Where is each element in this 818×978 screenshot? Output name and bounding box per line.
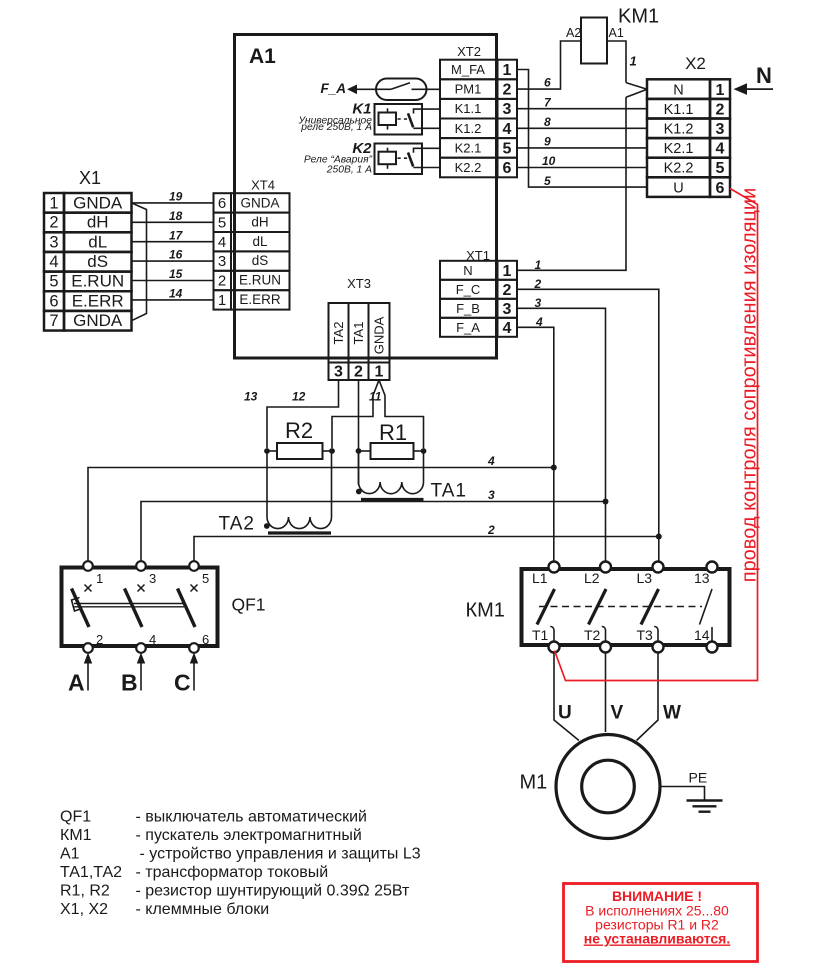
svg-text:4: 4 (503, 320, 512, 337)
svg-text:6: 6 (49, 292, 58, 310)
terminal QF1:3 (136, 561, 146, 571)
svg-text:A2: A2 (566, 26, 581, 40)
svg-text:B: B (121, 670, 138, 696)
svg-text:18: 18 (169, 209, 183, 223)
wire 8 XT2:4 to X2:3 (517, 115, 647, 129)
node F_A output arrow (321, 81, 358, 96)
svg-text:1: 1 (96, 571, 103, 586)
svg-text:6: 6 (503, 160, 512, 177)
wire phase C bus QF1:5 to node (194, 523, 659, 562)
wire 11 XT3:1 split to R2 and R1 (332, 380, 424, 448)
svg-text:3: 3 (488, 488, 495, 502)
terminal KM1:T1 (549, 642, 560, 653)
terminal QF1:4 (136, 643, 146, 653)
svg-text:2: 2 (354, 364, 363, 381)
wire 5 XT2:1 to X2:6 (517, 70, 647, 189)
svg-text:TA1: TA1 (431, 481, 467, 502)
current transformer TA2 (219, 451, 332, 535)
phase A input arrow (68, 653, 92, 696)
terminal block X2 (647, 54, 730, 197)
wire 4 XT1:4 to KM1 L1 (517, 315, 554, 567)
svg-text:4: 4 (487, 454, 495, 468)
node N input arrow (734, 63, 774, 95)
svg-text:C: C (174, 670, 191, 696)
junction phase B (603, 499, 609, 505)
svg-text:E.RUN: E.RUN (239, 273, 281, 288)
svg-text:K1.2: K1.2 (455, 121, 482, 136)
svg-text:2: 2 (534, 277, 542, 291)
latch QF1 (72, 598, 83, 612)
svg-text:- резистор шунтирующий 0.39Ω 2: - резистор шунтирующий 0.39Ω 25Вт (136, 883, 411, 900)
svg-text:4: 4 (503, 121, 512, 138)
terminal KM1:L1 (549, 562, 560, 573)
svg-text:3: 3 (49, 233, 58, 251)
aux contact 13-14 blade (700, 589, 713, 625)
svg-text:TA1: TA1 (351, 322, 366, 345)
junction R2 left (264, 448, 270, 454)
warning note box (564, 884, 758, 962)
wire 10 XT2:6 to X2:5 (517, 154, 647, 168)
svg-text:A: A (68, 670, 85, 696)
svg-text:KM1: KM1 (618, 6, 659, 28)
svg-text:- клеммные блоки: - клеммные блоки (136, 901, 270, 918)
wire 12 XT3:2 to R1/TA1 (292, 380, 359, 485)
terminal QF1:6 (189, 643, 199, 653)
svg-text:K1.1: K1.1 (664, 102, 694, 118)
svg-text:9: 9 (544, 135, 551, 149)
motor M1 (520, 735, 661, 839)
wire phase A bus QF1:1 to node (88, 454, 554, 562)
terminal KM1:T2 (600, 642, 611, 653)
terminal KM1:T3 (653, 642, 664, 653)
terminal block XT3 (329, 276, 390, 381)
svg-text:- трансформатор токовый: - трансформатор токовый (136, 864, 329, 881)
wire 2 XT1:2 to KM1 L3 (517, 277, 659, 567)
svg-text:12: 12 (292, 390, 306, 404)
terminal block XT4 (214, 178, 290, 310)
svg-text:10: 10 (542, 154, 556, 168)
svg-text:R2: R2 (285, 418, 313, 443)
svg-text:W: W (663, 703, 681, 724)
svg-text:dS: dS (252, 253, 269, 268)
svg-text:2: 2 (503, 282, 512, 299)
terminal KM1:L2 (600, 562, 611, 573)
device A1 (235, 35, 497, 359)
svg-text:X2: X2 (685, 54, 706, 73)
svg-text:M_FA: M_FA (451, 62, 485, 77)
svg-text:5: 5 (716, 160, 725, 177)
terminal block XT2 (440, 44, 517, 177)
switch symbol PM1 (motor voltage relay) (356, 79, 440, 101)
svg-text:PM1: PM1 (455, 82, 482, 97)
wire V KM1:T2 to motor (606, 653, 624, 733)
svg-text:3: 3 (503, 301, 512, 318)
wire GNDA tie X1:1 to X1:7 (132, 203, 147, 321)
svg-text:QF1: QF1 (60, 809, 91, 826)
svg-text:T1: T1 (532, 627, 549, 643)
svg-text:T3: T3 (637, 627, 654, 643)
pin numbers XT1 1-4 (503, 263, 512, 337)
svg-text:6: 6 (202, 632, 209, 647)
svg-text:6: 6 (544, 76, 551, 90)
svg-text:R1, R2: R1, R2 (60, 883, 110, 900)
terminal QF1:5 (189, 561, 199, 571)
svg-text:2: 2 (49, 214, 58, 232)
svg-text:N: N (756, 63, 772, 88)
wire 1 XT1:1 to X2:1 (517, 97, 626, 272)
terminal KM1:13 (707, 562, 718, 573)
svg-text:3: 3 (716, 121, 725, 138)
svg-text:GNDA: GNDA (240, 196, 279, 211)
svg-text:6: 6 (716, 180, 725, 197)
svg-text:не устанавливаются.: не устанавливаются. (584, 931, 731, 947)
svg-text:TA2: TA2 (331, 322, 346, 345)
svg-text:5: 5 (202, 571, 209, 586)
svg-text:XT3: XT3 (347, 276, 371, 291)
svg-text:2: 2 (716, 101, 725, 118)
pole 2 blade (125, 589, 143, 628)
relay K2 (304, 140, 440, 176)
pin numbers X2 1-6 (716, 82, 725, 197)
svg-text:R1: R1 (379, 420, 407, 445)
svg-text:2: 2 (503, 82, 512, 99)
svg-text:15: 15 (169, 267, 183, 281)
svg-text:K2.2: K2.2 (455, 160, 482, 175)
svg-text:F_C: F_C (456, 282, 481, 297)
pin numbers XT2 1-6 (503, 62, 512, 177)
svg-text:17: 17 (169, 228, 184, 242)
svg-text:dL: dL (88, 232, 107, 251)
wire W KM1:T3 to motor (637, 653, 682, 741)
svg-text:3: 3 (218, 253, 226, 270)
relay K1 (297, 101, 440, 135)
svg-text:dH: dH (251, 214, 268, 229)
pole 3 blade (178, 589, 196, 628)
svg-text:ТА1,ТА2: ТА1,ТА2 (60, 864, 122, 881)
svg-text:K2.1: K2.1 (664, 141, 694, 157)
svg-text:2: 2 (96, 632, 103, 647)
svg-text:M1: M1 (520, 772, 548, 794)
svg-text:1: 1 (630, 54, 637, 69)
resistor R1 (360, 420, 424, 459)
junction R1 right (421, 448, 427, 454)
linkage QF1 (74, 603, 184, 605)
wire 6 XT2:2 to KM1 coil A2 (517, 41, 581, 90)
svg-text:1: 1 (503, 263, 512, 280)
wire 13 XT3:3 to R2 (244, 380, 339, 448)
pin numbers XT4 6-1 (218, 195, 226, 309)
svg-text:U: U (558, 703, 572, 724)
svg-text:- устройство управления и защи: - устройство управления и защиты L3 (140, 846, 421, 863)
svg-text:Х1, Х2: Х1, Х2 (60, 901, 108, 918)
svg-text:2: 2 (218, 273, 226, 290)
junction R2 right (329, 448, 335, 454)
svg-text:1: 1 (375, 364, 384, 381)
svg-text:1: 1 (503, 62, 512, 79)
pole 1 blade (72, 589, 90, 628)
svg-text:dL: dL (252, 234, 268, 249)
junction R1 left (356, 448, 362, 454)
svg-text:14: 14 (169, 287, 183, 301)
svg-text:F_B: F_B (456, 301, 480, 316)
terminal block X1 (44, 168, 132, 331)
svg-text:XT4: XT4 (251, 178, 275, 193)
svg-text:GNDA: GNDA (372, 316, 387, 354)
svg-text:5: 5 (49, 273, 58, 291)
legend (60, 809, 421, 919)
wire 3 XT1:3 to KM1 L2 (517, 296, 606, 567)
wire phase B bus QF1:3 to node (141, 488, 606, 562)
svg-text:L3: L3 (637, 570, 653, 586)
svg-text:U: U (673, 180, 683, 196)
svg-text:3: 3 (503, 101, 512, 118)
svg-text:3: 3 (149, 571, 156, 586)
svg-text:K1.1: K1.1 (455, 101, 482, 116)
junction phase C (656, 534, 662, 540)
svg-text:13: 13 (244, 390, 258, 404)
svg-text:19: 19 (169, 190, 183, 204)
svg-text:L2: L2 (584, 570, 600, 586)
svg-text:N: N (463, 263, 472, 278)
current transformer TA1 (356, 451, 467, 502)
svg-text:- пускатель электромагнитный: - пускатель электромагнитный (136, 827, 362, 844)
contactor KM1 (466, 562, 730, 653)
svg-text:8: 8 (544, 115, 551, 129)
svg-text:dH: dH (87, 213, 109, 232)
svg-text:L1: L1 (532, 570, 548, 586)
svg-text:E.ERR: E.ERR (72, 291, 124, 310)
pole L1-T1 blade (537, 589, 555, 625)
svg-text:4: 4 (218, 234, 226, 251)
svg-text:4: 4 (716, 141, 725, 158)
svg-text:1: 1 (218, 292, 226, 309)
svg-text:dS: dS (87, 252, 108, 271)
circuit breaker QF1 (62, 561, 266, 653)
wire 9 XT2:5 to X2:4 (517, 135, 647, 149)
wire U KM1:T1 to motor (554, 653, 579, 741)
phase C input arrow (174, 653, 198, 696)
svg-text:КМ1: КМ1 (466, 600, 505, 622)
svg-text:4: 4 (149, 632, 156, 647)
ground PE (660, 770, 722, 812)
junction phase A (551, 465, 557, 471)
resistor R2 (267, 418, 332, 459)
svg-text:13: 13 (694, 570, 710, 586)
wire KM1 coil A1 to X2:1 (607, 41, 647, 97)
svg-text:5: 5 (544, 174, 551, 188)
svg-text:PE: PE (689, 770, 708, 786)
phase B input arrow (121, 653, 145, 696)
svg-text:4: 4 (535, 315, 543, 329)
svg-text:K2.2: K2.2 (664, 161, 694, 177)
linkage KM1 dashed (539, 606, 702, 608)
svg-text:16: 16 (169, 248, 183, 262)
svg-text:F_A: F_A (456, 320, 480, 335)
svg-text:6: 6 (218, 195, 226, 212)
svg-text:11: 11 (369, 390, 382, 404)
svg-text:N: N (673, 82, 683, 98)
svg-text:T2: T2 (584, 627, 601, 643)
svg-text:E.RUN: E.RUN (71, 272, 124, 291)
svg-text:5: 5 (503, 140, 512, 157)
svg-text:провод контроля сопротивления: провод контроля сопротивления изоляции (739, 188, 761, 583)
svg-text:3: 3 (535, 296, 542, 310)
svg-text:XT2: XT2 (457, 44, 481, 59)
svg-text:1: 1 (49, 195, 58, 213)
svg-text:E.ERR: E.ERR (239, 292, 281, 307)
svg-text:КМ1: КМ1 (60, 827, 92, 844)
svg-text:GNDA: GNDA (73, 311, 123, 330)
wires 19-14 X1 to XT4 (132, 190, 214, 301)
terminal KM1:L3 (653, 562, 664, 573)
terminal block XT1 (440, 248, 517, 337)
contactor coil KM1 (566, 6, 659, 64)
svg-text:TA2: TA2 (219, 514, 255, 535)
terminal KM1:14 (707, 642, 718, 653)
terminal QF1:2 (83, 643, 93, 653)
svg-text:K2.1: K2.1 (455, 140, 482, 155)
svg-text:GNDA: GNDA (73, 194, 123, 213)
svg-text:1: 1 (535, 258, 542, 272)
svg-text:X1: X1 (79, 168, 101, 188)
terminal QF1:1 (83, 561, 93, 571)
pole L2-T2 blade (589, 589, 607, 625)
svg-text:2: 2 (487, 523, 495, 537)
svg-text:4: 4 (49, 253, 58, 271)
svg-text:A1: A1 (249, 45, 276, 68)
pin numbers XT3 3-2-1 (334, 364, 384, 381)
svg-text:5: 5 (218, 214, 226, 231)
svg-text:QF1: QF1 (232, 595, 266, 615)
svg-text:реле 250В, 1 А: реле 250В, 1 А (300, 122, 372, 133)
wire insulation monitoring (red) X2:6 to KM1:T1 (555, 189, 758, 681)
svg-text:250В, 1 А: 250В, 1 А (326, 165, 372, 176)
svg-text:A1: A1 (609, 26, 624, 40)
svg-text:А1: А1 (60, 846, 80, 863)
svg-text:14: 14 (694, 627, 710, 643)
pole L3-T3 blade (641, 589, 659, 625)
svg-text:7: 7 (49, 312, 58, 330)
svg-text:1: 1 (716, 82, 725, 99)
wire 7 XT2:3 to X2:2 (517, 95, 647, 109)
svg-text:V: V (611, 703, 624, 724)
svg-text:K1.2: K1.2 (664, 122, 694, 138)
svg-text:3: 3 (334, 364, 343, 381)
svg-text:- выключатель автоматический: - выключатель автоматический (136, 809, 367, 826)
pin numbers X1 1-7 (49, 195, 58, 330)
svg-text:F_A: F_A (321, 81, 347, 96)
